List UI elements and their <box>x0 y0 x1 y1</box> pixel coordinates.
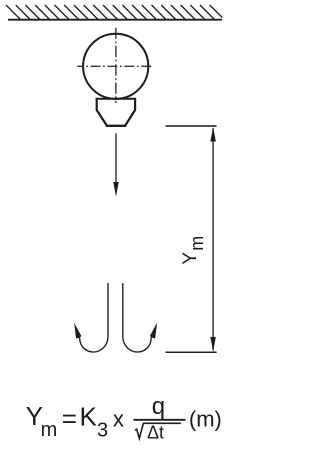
svg-text:Δt: Δt <box>147 423 164 443</box>
dimension arrowhead up <box>210 127 216 142</box>
dimension bottom tick <box>166 351 217 353</box>
left jet curl <box>78 283 108 352</box>
ceiling hatch <box>6 5 222 20</box>
flow arrow shaft <box>115 134 117 185</box>
left jet arrowhead <box>74 323 81 339</box>
svg-text:(m): (m) <box>189 406 222 431</box>
svg-text:K: K <box>80 402 98 432</box>
svg-text:x: x <box>113 406 124 431</box>
right jet arrowhead <box>150 323 157 339</box>
dimension line <box>212 128 214 351</box>
vertical centerline <box>115 28 117 103</box>
flow arrowhead <box>113 182 119 197</box>
nozzle bottom line <box>106 125 126 127</box>
dimension top tick <box>166 125 217 127</box>
ceiling line <box>8 19 222 21</box>
svg-text:=: = <box>62 404 77 434</box>
right jet curl <box>123 283 153 352</box>
horizontal centerline <box>77 65 152 67</box>
label Ym (rotated) <box>180 236 207 265</box>
svg-text:Ym: Ym <box>180 236 207 265</box>
formula fraction bar <box>134 419 186 421</box>
sprinkler bulb circle <box>83 34 148 99</box>
dimension arrowhead down <box>210 337 216 352</box>
nozzle body <box>97 99 135 126</box>
formula radical <box>135 423 181 438</box>
svg-text:q: q <box>152 393 165 420</box>
nozzle top line <box>96 98 137 100</box>
formula Ym = K3 x q/sqrt(dt) (m) <box>26 393 222 443</box>
svg-text:3: 3 <box>97 420 108 442</box>
svg-text:m: m <box>41 419 58 441</box>
